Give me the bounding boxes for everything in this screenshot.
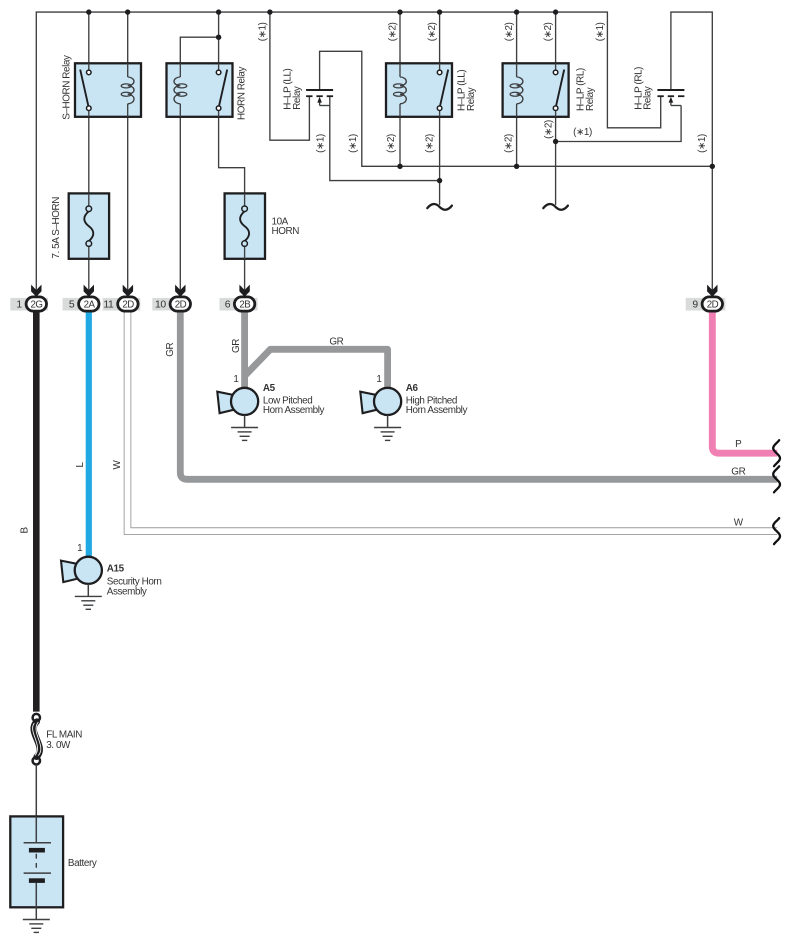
- svg-text:(∗1): (∗1): [595, 22, 606, 41]
- svg-text:GR: GR: [165, 342, 176, 356]
- svg-text:(∗2): (∗2): [543, 22, 554, 41]
- svg-text:P: P: [735, 439, 742, 450]
- transistor H-LP (LL) Relay semiconductor: [306, 90, 333, 106]
- connector 10 2D: [152, 285, 190, 312]
- label W at right edge: [734, 517, 744, 528]
- svg-text:HORN: HORN: [272, 226, 300, 237]
- label (*2) below RL switch: [543, 120, 554, 139]
- svg-text:5: 5: [69, 299, 75, 310]
- break squiggle GR wire: [773, 466, 780, 492]
- svg-text:(∗2): (∗2): [388, 22, 399, 41]
- svg-text:11: 11: [103, 299, 114, 310]
- connector 1 2G: [10, 285, 48, 312]
- connector 9 2D: [686, 285, 726, 312]
- label (*1) above connector 9: [697, 134, 708, 153]
- label (*2) below RL coil: [503, 134, 514, 153]
- svg-text:B: B: [20, 526, 31, 533]
- label Battery: [68, 858, 97, 869]
- svg-text:(∗2): (∗2): [425, 134, 436, 153]
- wire HORN relay switch to fuse 10A: [219, 111, 245, 207]
- svg-text:Relay: Relay: [292, 86, 303, 110]
- label HORN Relay: [237, 66, 248, 120]
- svg-text:GR: GR: [329, 336, 343, 347]
- wire (*1) H-LP LL drain loop to relay coils node: [320, 51, 713, 166]
- wire HORN relay switch drop from bus: [218, 12, 220, 70]
- label GR at right edge: [731, 467, 745, 478]
- connector 6 2B: [220, 285, 258, 312]
- label (*2) below LL switch: [425, 134, 436, 153]
- wire main power bus with left drop and H-LP RL gate loop: [36, 12, 660, 291]
- svg-text:W: W: [112, 459, 123, 469]
- svg-text:(∗2): (∗2): [386, 134, 397, 153]
- wire fuse 10A to connector 6: [244, 246, 246, 291]
- label (*2) above LL coil: [388, 22, 399, 41]
- break squiggle P wire: [773, 440, 780, 466]
- svg-text:Assembly: Assembly: [107, 586, 147, 597]
- label H-LP (LL) Relay: [457, 70, 478, 111]
- label S-HORN Relay: [62, 55, 73, 120]
- svg-text:2D: 2D: [122, 300, 134, 311]
- wire H-LP LL relay switch to headlight circuit: [439, 111, 441, 205]
- wire (*1) H-LP RL source to RL relay switch: [556, 106, 682, 142]
- svg-text:10: 10: [155, 299, 166, 310]
- wire H-LP LL relay coil drop from bus: [399, 12, 401, 77]
- wire HORN relay coil branch: [180, 37, 218, 77]
- svg-text:1: 1: [376, 374, 382, 385]
- wire S-HORN relay switch to fuse 7.5A: [88, 111, 90, 207]
- wire (*1) H-LP RL drain loop to connector 9: [671, 12, 712, 291]
- svg-text:3. 0W: 3. 0W: [46, 740, 71, 751]
- label GR vertical at connector 6 wire: [231, 339, 242, 353]
- tilde break under RL relay switch: [543, 204, 568, 210]
- svg-text:7. 5A S–HORN: 7. 5A S–HORN: [51, 197, 62, 259]
- label A6 High Pitched Horn Assembly: [406, 383, 468, 416]
- label (*2) above RL switch: [543, 22, 554, 41]
- wire S-HORN relay switch drop from bus: [88, 12, 90, 70]
- svg-text:GR: GR: [231, 339, 242, 353]
- ground of A5: [231, 415, 258, 440]
- svg-text:HORN Relay: HORN Relay: [237, 66, 248, 120]
- svg-text:(∗2): (∗2): [503, 134, 514, 153]
- wire GR branch to high pitched horn (gray): [245, 349, 388, 387]
- svg-text:(∗1): (∗1): [697, 134, 708, 153]
- svg-text:Relay: Relay: [585, 87, 596, 111]
- svg-text:Relay: Relay: [466, 87, 477, 111]
- svg-text:Horn Assembly: Horn Assembly: [263, 405, 325, 416]
- label H-LP (LL) Relay transistor: [282, 68, 303, 109]
- svg-text:Horn Assembly: Horn Assembly: [406, 405, 468, 416]
- tilde break under LL relay switch: [427, 204, 452, 210]
- svg-text:(∗1): (∗1): [573, 127, 592, 138]
- ground of battery: [23, 920, 50, 933]
- svg-text:(∗2): (∗2): [543, 120, 554, 139]
- label FL MAIN 3.0W: [46, 729, 82, 750]
- wire H-LP RL relay switch to headlight circuit: [555, 111, 557, 205]
- svg-text:(∗1): (∗1): [258, 22, 269, 41]
- svg-text:FL MAIN: FL MAIN: [46, 729, 82, 740]
- relay HORN (box): [167, 63, 233, 117]
- label 10A HORN: [272, 216, 300, 237]
- horn A15 Security Horn Assembly: [61, 557, 102, 584]
- pin 1 of A15: [77, 543, 83, 554]
- label P at right edge: [735, 439, 742, 450]
- horn A5 Low Pitched Horn Assembly: [217, 388, 258, 415]
- label (*2) above RL coil: [504, 22, 515, 41]
- relay S-HORN (box): [75, 63, 141, 117]
- label (*1) below LL drain loop: [348, 134, 359, 153]
- relay H-LP (RL) (box): [503, 63, 569, 117]
- label H-LP (RL) Relay transistor: [633, 67, 653, 110]
- label L: [75, 462, 86, 468]
- svg-text:2D: 2D: [175, 300, 187, 311]
- junction dot HORN coil branch: [216, 35, 221, 40]
- label (*1) top right: [595, 22, 606, 41]
- svg-text:A6: A6: [406, 383, 419, 394]
- wire GR long horizontal run (gray): [180, 310, 777, 479]
- fusible link FL MAIN 3.0W: [33, 714, 41, 765]
- wire H-LP LL relay coil to (*1) node: [399, 104, 401, 167]
- label H-LP (RL) Relay: [576, 68, 597, 111]
- wire fusible link to battery: [35, 765, 37, 843]
- svg-text:2B: 2B: [239, 300, 250, 311]
- svg-text:1: 1: [16, 299, 22, 310]
- wire P from connector 9 (pink): [712, 310, 777, 453]
- fuse 10A HORN: [225, 193, 265, 258]
- svg-text:2A: 2A: [84, 300, 96, 311]
- wire fuse 7.5A to connector 5: [88, 246, 90, 291]
- battery: [10, 816, 63, 919]
- wire S-HORN relay coil drop from bus: [127, 12, 129, 77]
- svg-text:(∗1): (∗1): [348, 134, 359, 153]
- fuse 7.5A S-HORN: [69, 193, 109, 258]
- svg-text:1: 1: [233, 374, 239, 385]
- svg-text:2G: 2G: [31, 300, 43, 311]
- pin 1 of A6: [376, 374, 382, 385]
- svg-text:A15: A15: [107, 563, 125, 574]
- ground of A15: [75, 584, 102, 609]
- wire H-LP RL relay coil to (*1) node: [516, 104, 518, 167]
- wire HORN relay coil to connector 10: [179, 104, 181, 291]
- svg-text:W: W: [734, 517, 744, 528]
- ground of A6: [374, 415, 401, 440]
- svg-text:(∗2): (∗2): [504, 22, 515, 41]
- svg-text:9: 9: [692, 299, 698, 310]
- svg-text:GR: GR: [731, 467, 745, 478]
- wire H-LP RL relay switch drop from bus: [555, 12, 557, 70]
- label (*1) top left: [258, 22, 269, 41]
- svg-text:(∗1): (∗1): [316, 134, 327, 153]
- label GR vertical at connector 10 wire: [165, 342, 176, 356]
- svg-text:6: 6: [225, 299, 231, 310]
- label A5 Low Pitched Horn Assembly: [263, 383, 325, 416]
- wire GR to low pitched horn (gray): [241, 310, 248, 388]
- label (*1) at RL source line: [573, 127, 592, 138]
- svg-text:Relay: Relay: [643, 86, 654, 110]
- wire W horizontal run (white with gray edges): [128, 308, 778, 531]
- wire L to security horn (blue): [86, 310, 92, 557]
- pin 1 of A5: [233, 374, 239, 385]
- connector 11 2D: [103, 285, 141, 312]
- label (*1) below LL source: [316, 134, 327, 153]
- svg-text:1: 1: [77, 543, 83, 554]
- junction dot LL switch node: [437, 178, 442, 183]
- wire H-LP LL relay switch drop from bus: [439, 12, 441, 70]
- wire H-LP RL relay coil drop from bus: [516, 12, 518, 77]
- junction dots on power bus: [86, 9, 558, 14]
- label W vertical: [112, 459, 123, 469]
- relay H-LP (LL) (box): [386, 63, 452, 117]
- svg-text:S–HORN Relay: S–HORN Relay: [62, 55, 73, 120]
- label (*2) below LL coil: [386, 134, 397, 153]
- svg-text:2D: 2D: [707, 300, 719, 311]
- break squiggle W wire: [773, 518, 780, 544]
- wire (*1) H-LP LL source to LL relay switch: [330, 96, 440, 180]
- wire B battery feed (black): [33, 310, 40, 712]
- transistor H-LP (RL) Relay semiconductor: [657, 90, 684, 106]
- wire (*1) bus to H-LP LL gate: [270, 12, 310, 140]
- svg-text:(∗2): (∗2): [427, 22, 438, 41]
- svg-text:L: L: [75, 462, 86, 468]
- connector 5 2A: [63, 285, 101, 312]
- junction dots (*1) relay coil node: [397, 164, 715, 169]
- label A15 Security Horn Assembly: [107, 563, 162, 597]
- svg-text:A5: A5: [263, 383, 276, 394]
- label (*2) above LL switch: [427, 22, 438, 41]
- horn A6 High Pitched Horn Assembly: [360, 388, 401, 415]
- label 7.5A S-HORN: [51, 197, 62, 259]
- wire S-HORN relay coil to connector 11: [127, 104, 129, 291]
- label GR on branch to high pitched horn: [329, 336, 343, 347]
- svg-text:Battery: Battery: [68, 858, 97, 869]
- junction dot RL switch node: [553, 139, 558, 144]
- label B: [20, 526, 31, 533]
